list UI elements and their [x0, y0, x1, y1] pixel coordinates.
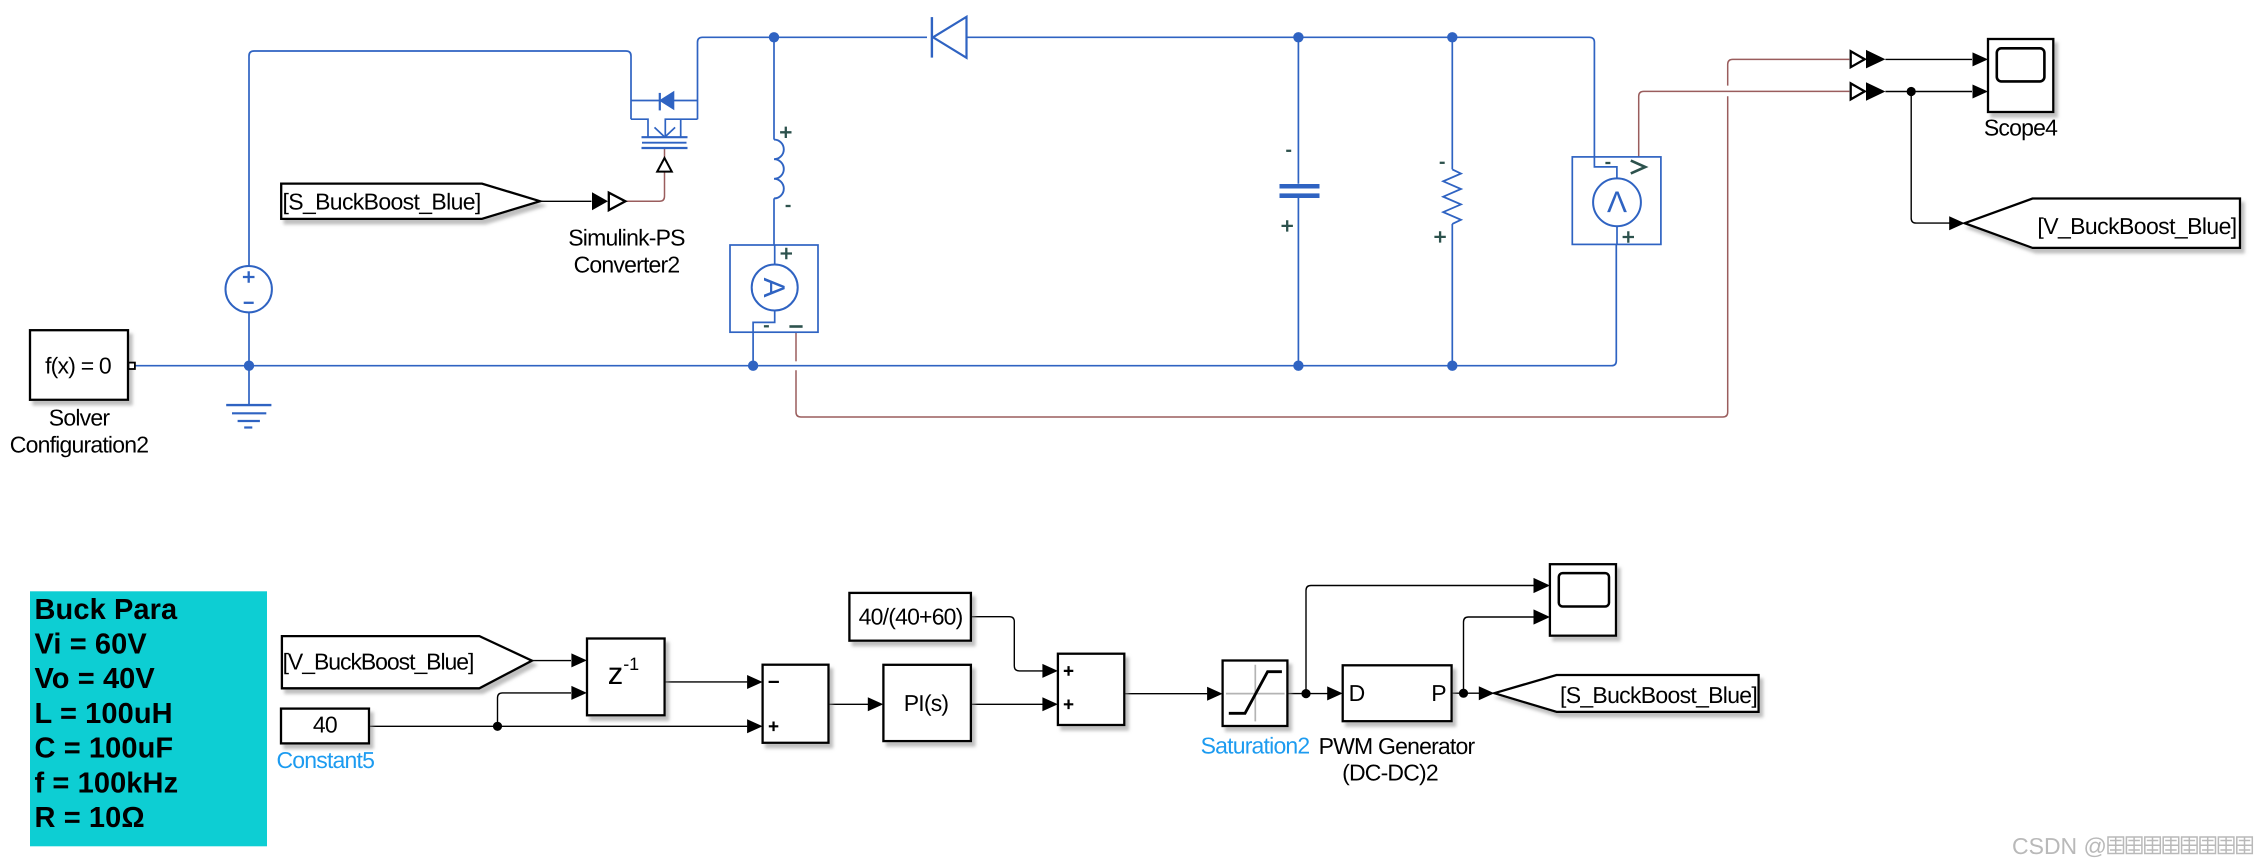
svg-text:PWM Generator: PWM Generator [1319, 733, 1476, 759]
svg-text:f = 100kHz: f = 100kHz [35, 768, 179, 800]
svg-text:CSDN @: CSDN @ [2012, 833, 2107, 859]
svg-text:Saturation2: Saturation2 [1201, 732, 1310, 758]
svg-text:[S_BuckBoost_Blue]: [S_BuckBoost_Blue] [283, 189, 481, 215]
svg-text:Constant5: Constant5 [276, 747, 374, 773]
svg-text:Simulink-PS: Simulink-PS [568, 225, 685, 251]
svg-text:[S_BuckBoost_Blue]: [S_BuckBoost_Blue] [1560, 682, 1757, 708]
svg-text:Buck Para: Buck Para [35, 594, 179, 626]
svg-text:[V_BuckBoost_Blue]: [V_BuckBoost_Blue] [283, 648, 474, 674]
svg-text:C = 100uF: C = 100uF [35, 733, 174, 765]
svg-text:40: 40 [313, 711, 337, 737]
svg-text:Solver: Solver [49, 405, 111, 431]
svg-text:A: A [757, 277, 790, 297]
svg-text:Converter2: Converter2 [574, 252, 680, 278]
svg-text:Vi = 60V: Vi = 60V [35, 629, 148, 661]
svg-text:R = 10Ω: R = 10Ω [35, 802, 145, 834]
svg-text:PI(s): PI(s) [904, 690, 949, 716]
svg-text:L = 100uH: L = 100uH [35, 698, 173, 730]
svg-text:Scope4: Scope4 [1984, 115, 2058, 141]
svg-text:P: P [1431, 680, 1446, 706]
svg-text:[V_BuckBoost_Blue]: [V_BuckBoost_Blue] [2037, 213, 2236, 239]
svg-text:Vo = 40V: Vo = 40V [35, 663, 156, 695]
svg-text:D: D [1349, 680, 1365, 706]
svg-text:V: V [1607, 185, 1627, 218]
svg-text:Configuration2: Configuration2 [10, 431, 148, 457]
svg-text:(DC-DC)2: (DC-DC)2 [1342, 760, 1438, 786]
svg-text:f(x) = 0: f(x) = 0 [45, 353, 111, 379]
svg-text:40/(40+60): 40/(40+60) [859, 604, 963, 630]
